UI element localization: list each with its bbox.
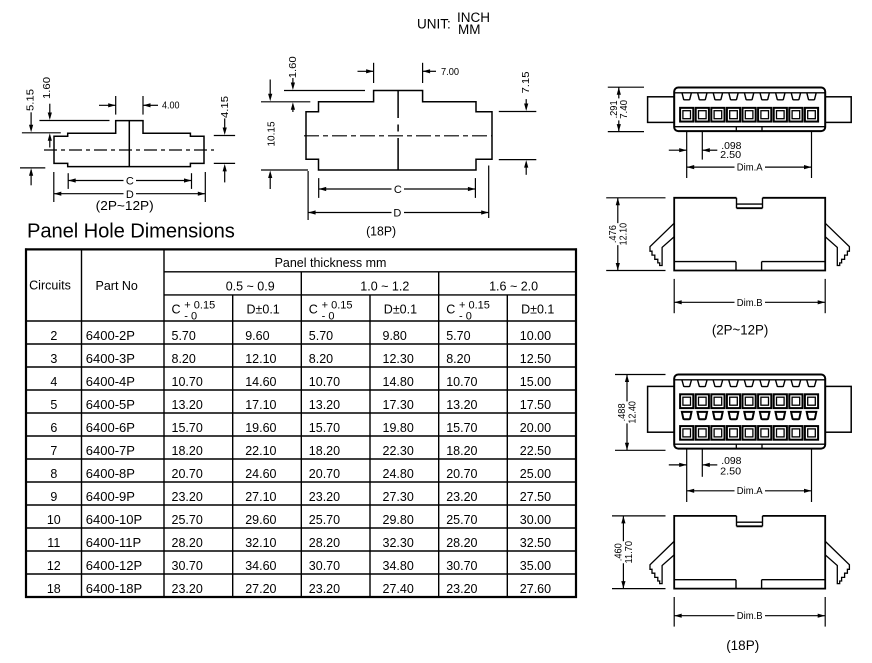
- svg-text:12.30: 12.30: [383, 352, 414, 366]
- svg-text:12: 12: [47, 559, 61, 573]
- svg-text:20.70: 20.70: [446, 467, 477, 481]
- svg-text:34.80: 34.80: [383, 559, 414, 573]
- svg-text:6400-3P: 6400-3P: [86, 351, 135, 366]
- svg-text:- 0: - 0: [184, 311, 197, 323]
- svg-text:D±0.1: D±0.1: [384, 303, 417, 317]
- svg-text:.488: .488: [617, 403, 628, 421]
- svg-text:6400-18P: 6400-18P: [86, 581, 142, 596]
- svg-text:8.20: 8.20: [446, 352, 470, 366]
- svg-text:7: 7: [50, 444, 57, 458]
- svg-text:12.40: 12.40: [628, 401, 639, 424]
- svg-text:6400-4P: 6400-4P: [86, 374, 135, 389]
- svg-text:17.10: 17.10: [245, 398, 276, 412]
- svg-text:29.60: 29.60: [245, 513, 276, 527]
- svg-text:4.15: 4.15: [220, 96, 231, 118]
- svg-text:12.10: 12.10: [245, 352, 276, 366]
- svg-text:20.70: 20.70: [172, 467, 203, 481]
- svg-text:4.00: 4.00: [162, 101, 180, 112]
- svg-text:UNIT:: UNIT:: [417, 16, 451, 31]
- svg-text:35.00: 35.00: [520, 559, 551, 573]
- svg-text:0.5 ~ 0.9: 0.5 ~ 0.9: [226, 280, 275, 294]
- svg-text:32.30: 32.30: [383, 536, 414, 550]
- svg-text:7.40: 7.40: [619, 99, 630, 118]
- svg-text:28.20: 28.20: [446, 536, 477, 550]
- svg-text:17.50: 17.50: [520, 398, 551, 412]
- svg-text:10.70: 10.70: [446, 375, 477, 389]
- svg-text:27.10: 27.10: [245, 490, 276, 504]
- svg-text:24.80: 24.80: [383, 467, 414, 481]
- svg-text:20.00: 20.00: [520, 421, 551, 435]
- svg-text:Circuits: Circuits: [29, 279, 71, 293]
- svg-text:Panel thickness mm: Panel thickness mm: [275, 256, 387, 270]
- svg-text:6400-5P: 6400-5P: [86, 397, 135, 412]
- svg-text:C: C: [394, 184, 402, 196]
- svg-text:(2P~12P): (2P~12P): [712, 321, 769, 337]
- svg-text:6400-9P: 6400-9P: [86, 489, 135, 504]
- svg-text:23.20: 23.20: [446, 490, 477, 504]
- svg-text:(18P): (18P): [366, 224, 396, 238]
- svg-text:14.80: 14.80: [383, 375, 414, 389]
- svg-text:23.20: 23.20: [446, 582, 477, 596]
- svg-text:6400-8P: 6400-8P: [86, 466, 135, 481]
- svg-text:11: 11: [47, 536, 60, 550]
- svg-text:15.70: 15.70: [446, 421, 477, 435]
- svg-text:2.50: 2.50: [720, 466, 741, 478]
- svg-text:+ 0.15: + 0.15: [459, 299, 490, 311]
- svg-text:11.70: 11.70: [624, 541, 635, 564]
- svg-text:25.70: 25.70: [172, 513, 203, 527]
- svg-text:17.30: 17.30: [383, 398, 414, 412]
- svg-text:15.00: 15.00: [520, 375, 551, 389]
- svg-text:C: C: [172, 303, 181, 317]
- svg-text:6400-2P: 6400-2P: [86, 328, 135, 343]
- svg-text:D±0.1: D±0.1: [247, 303, 280, 317]
- svg-text:9: 9: [50, 490, 57, 504]
- svg-text:Dim.B: Dim.B: [737, 297, 763, 309]
- svg-text:8.20: 8.20: [172, 352, 196, 366]
- svg-text:1.6 ~ 2.0: 1.6 ~ 2.0: [489, 280, 538, 294]
- svg-text:D: D: [393, 208, 401, 220]
- svg-text:28.20: 28.20: [309, 536, 340, 550]
- svg-text:23.20: 23.20: [172, 582, 203, 596]
- svg-text:20.70: 20.70: [309, 467, 340, 481]
- svg-text:23.20: 23.20: [172, 490, 203, 504]
- svg-text:10.00: 10.00: [520, 329, 551, 343]
- svg-text:(18P): (18P): [726, 637, 759, 653]
- svg-text:19.60: 19.60: [245, 421, 276, 435]
- svg-text:10: 10: [47, 513, 61, 527]
- svg-text:C: C: [126, 176, 134, 188]
- svg-text:30.70: 30.70: [446, 559, 477, 573]
- svg-text:6400-10P: 6400-10P: [86, 512, 142, 527]
- svg-text:MM: MM: [458, 22, 481, 37]
- svg-text:6400-7P: 6400-7P: [86, 443, 135, 458]
- svg-text:25.00: 25.00: [520, 467, 551, 481]
- svg-text:8.20: 8.20: [309, 352, 333, 366]
- svg-text:13.20: 13.20: [309, 398, 340, 412]
- svg-text:13.20: 13.20: [446, 398, 477, 412]
- svg-text:.476: .476: [608, 225, 619, 243]
- svg-text:9.60: 9.60: [245, 329, 269, 343]
- svg-text:Dim.A: Dim.A: [737, 485, 763, 497]
- svg-text:7.00: 7.00: [441, 67, 459, 78]
- svg-text:30.70: 30.70: [172, 559, 203, 573]
- svg-text:23.20: 23.20: [309, 490, 340, 504]
- svg-text:22.30: 22.30: [383, 444, 414, 458]
- svg-text:30.00: 30.00: [520, 513, 551, 527]
- svg-text:22.10: 22.10: [245, 444, 276, 458]
- svg-text:Panel Hole Dimensions: Panel Hole Dimensions: [27, 221, 235, 243]
- svg-text:.460: .460: [614, 543, 625, 561]
- svg-text:9.80: 9.80: [383, 329, 407, 343]
- svg-text:Dim.B: Dim.B: [737, 610, 763, 622]
- svg-text:D±0.1: D±0.1: [521, 303, 554, 317]
- svg-text:+ 0.15: + 0.15: [184, 299, 215, 311]
- svg-text:12.10: 12.10: [619, 223, 630, 246]
- svg-text:34.60: 34.60: [245, 559, 276, 573]
- svg-text:13.20: 13.20: [172, 398, 203, 412]
- svg-text:2.50: 2.50: [720, 149, 741, 161]
- svg-text:29.80: 29.80: [383, 513, 414, 527]
- svg-text:27.30: 27.30: [383, 490, 414, 504]
- svg-text:10.15: 10.15: [266, 121, 277, 146]
- svg-text:6: 6: [50, 421, 57, 435]
- svg-text:32.50: 32.50: [520, 536, 551, 550]
- svg-text:Dim.A: Dim.A: [737, 161, 763, 173]
- svg-text:25.70: 25.70: [309, 513, 340, 527]
- svg-text:18.20: 18.20: [309, 444, 340, 458]
- svg-text:1.60: 1.60: [288, 56, 299, 78]
- svg-text:6400-6P: 6400-6P: [86, 420, 135, 435]
- svg-text:18: 18: [47, 582, 61, 596]
- svg-text:Part No: Part No: [96, 279, 138, 293]
- svg-text:C: C: [309, 303, 318, 317]
- svg-text:27.40: 27.40: [383, 582, 414, 596]
- svg-text:1.60: 1.60: [42, 77, 53, 99]
- svg-text:5.70: 5.70: [172, 329, 196, 343]
- svg-text:+ 0.15: + 0.15: [322, 299, 353, 311]
- svg-text:6400-12P: 6400-12P: [86, 558, 142, 573]
- svg-text:5.15: 5.15: [25, 89, 36, 111]
- svg-text:18.20: 18.20: [446, 444, 477, 458]
- svg-text:28.20: 28.20: [172, 536, 203, 550]
- svg-text:5.70: 5.70: [309, 329, 333, 343]
- svg-text:- 0: - 0: [322, 311, 335, 323]
- svg-text:5: 5: [50, 398, 57, 412]
- svg-text:15.70: 15.70: [309, 421, 340, 435]
- svg-text:(2P~12P): (2P~12P): [96, 199, 154, 213]
- svg-text:22.50: 22.50: [520, 444, 551, 458]
- svg-text:27.60: 27.60: [520, 582, 551, 596]
- svg-text:C: C: [446, 303, 455, 317]
- svg-text:10.70: 10.70: [309, 375, 340, 389]
- svg-text:30.70: 30.70: [309, 559, 340, 573]
- svg-text:3: 3: [50, 352, 57, 366]
- svg-text:4: 4: [50, 375, 57, 389]
- svg-text:24.60: 24.60: [245, 467, 276, 481]
- svg-text:23.20: 23.20: [309, 582, 340, 596]
- svg-text:12.50: 12.50: [520, 352, 551, 366]
- svg-text:27.20: 27.20: [245, 582, 276, 596]
- svg-text:2: 2: [50, 329, 57, 343]
- svg-text:1.0 ~ 1.2: 1.0 ~ 1.2: [360, 280, 409, 294]
- svg-text:7.15: 7.15: [521, 71, 532, 93]
- svg-text:27.50: 27.50: [520, 490, 551, 504]
- svg-text:14.60: 14.60: [245, 375, 276, 389]
- svg-text:32.10: 32.10: [245, 536, 276, 550]
- svg-text:25.70: 25.70: [446, 513, 477, 527]
- svg-text:18.20: 18.20: [172, 444, 203, 458]
- svg-text:19.80: 19.80: [383, 421, 414, 435]
- svg-text:6400-11P: 6400-11P: [86, 535, 141, 550]
- svg-text:8: 8: [50, 467, 57, 481]
- svg-text:5.70: 5.70: [446, 329, 470, 343]
- svg-text:15.70: 15.70: [172, 421, 203, 435]
- svg-text:- 0: - 0: [459, 311, 472, 323]
- svg-text:10.70: 10.70: [172, 375, 203, 389]
